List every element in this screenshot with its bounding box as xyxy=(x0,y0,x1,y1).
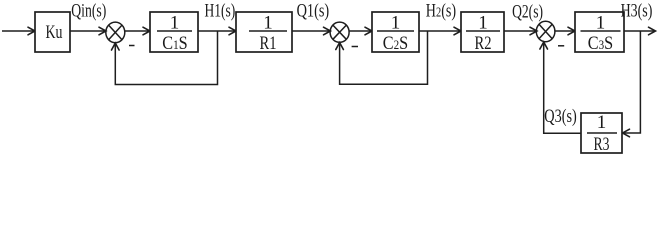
svg-text:1: 1 xyxy=(391,13,401,34)
svg-text:1: 1 xyxy=(597,112,607,133)
svg-text:H3(s): H3(s) xyxy=(621,0,653,21)
svg-text:Q3(s): Q3(s) xyxy=(544,106,577,127)
svg-text:R1: R1 xyxy=(260,33,277,54)
svg-text:C3S: C3S xyxy=(588,33,613,54)
svg-text:Qin(s): Qin(s) xyxy=(71,1,106,22)
svg-text:C2S: C2S xyxy=(383,33,408,54)
svg-text:Ku: Ku xyxy=(46,22,63,43)
svg-text:C1S: C1S xyxy=(162,33,187,54)
svg-text:1: 1 xyxy=(596,13,606,34)
svg-text:R3: R3 xyxy=(594,134,610,155)
svg-text:1: 1 xyxy=(263,13,273,34)
svg-text:Q1(s): Q1(s) xyxy=(297,0,330,21)
svg-text:1: 1 xyxy=(170,13,180,34)
svg-text:1: 1 xyxy=(478,13,488,34)
svg-text:H2(s): H2(s) xyxy=(426,1,456,22)
svg-text:R2: R2 xyxy=(475,33,492,54)
svg-text:Q2(s): Q2(s) xyxy=(512,1,543,22)
svg-text:H1(s): H1(s) xyxy=(205,1,236,22)
